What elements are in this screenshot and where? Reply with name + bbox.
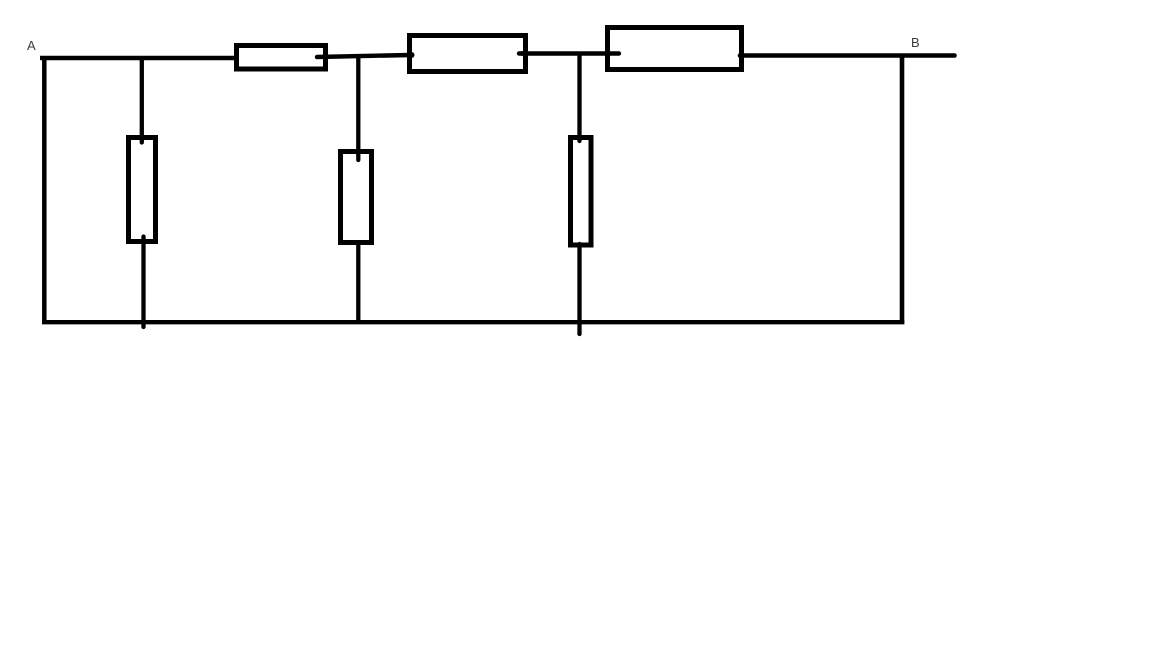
wire branch 3 lower segment with tail below rail [577,244,581,334]
wire left vertical (node A side) [42,56,47,324]
wire branch 1 upper segment [140,56,144,137]
resistor R2 (series) [410,36,526,72]
wire from R3 to node B end [740,53,955,58]
resistor R6 (shunt branch 3) [571,138,592,246]
resistor R5 (shunt branch 2) [341,152,372,243]
resistor R4 (shunt branch 1) [129,138,156,242]
wire branch 2 pin stub into R5 top [356,150,360,160]
wire pin stub inside R2 right [519,51,525,55]
wire branch 2 upper segment [356,55,360,151]
wire pin stub inside R3 left [609,51,619,55]
wire bottom rail [42,320,904,324]
resistor R1 (series) [237,46,326,70]
wire branch 3 pin stub into R6 top [577,136,581,141]
wire top from node A to R1 [40,56,239,60]
wire from R2 to R3 [521,51,621,55]
wire branch 1 lower segment with tail below rail [141,237,145,328]
junction dot at R2 left pin inside [409,52,415,58]
svg-text:B: B [911,35,920,50]
wire branch 3 upper segment [577,52,581,137]
wire branch 2 lower segment [356,241,360,322]
wire right vertical (node B side) [900,54,905,325]
wire branch 1 pin stub into R4 top [140,136,144,143]
wire from R1 to R2 [317,55,410,57]
svg-text:A: A [27,38,36,53]
resistor R3 (series) [608,28,742,70]
